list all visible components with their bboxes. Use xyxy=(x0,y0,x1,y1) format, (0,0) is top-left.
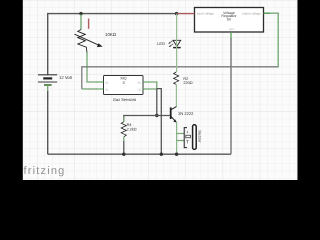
wire: R4 bottom to ground rail xyxy=(123,141,125,154)
svg-text:10KΩ: 10KΩ xyxy=(105,32,117,37)
svg-text:MQ: MQ xyxy=(120,77,126,81)
collector lead xyxy=(171,107,177,110)
wire: sensor right pins U-link (green) xyxy=(149,82,157,89)
voltage regulator U1 box xyxy=(195,8,264,33)
pot wiper pin (red, unconnected) xyxy=(88,19,90,29)
svg-text:input voltage: input voltage xyxy=(197,11,214,15)
resistor R4 2.2k xyxy=(121,117,137,142)
battery V1 12 Volt xyxy=(38,75,73,85)
wire: long middle rail (regulator output to sensor H pin) xyxy=(82,67,278,89)
wire: regulator output green down-link xyxy=(264,13,279,67)
wire: base rail from R4 to transistor xyxy=(124,116,170,122)
regulator output pin (green) xyxy=(264,12,271,14)
svg-text:5V: 5V xyxy=(227,17,232,21)
wire: top rail from battery to regulator input xyxy=(48,14,177,75)
svg-text:12 Volt: 12 Volt xyxy=(59,75,73,80)
pot resistor zigzag xyxy=(78,30,87,53)
svg-text:fritzing: fritzing xyxy=(24,165,66,177)
wire: pot bottom to gas sensor pin A1 (green wire) xyxy=(87,53,97,83)
gas sensor M2 box xyxy=(104,76,144,103)
regulator gnd pin (green) xyxy=(230,32,232,39)
gas sensor pins (green stubs) xyxy=(97,81,104,83)
svg-text:A1: A1 xyxy=(105,81,109,84)
wire: green segment into sensor bottom-left pin xyxy=(82,88,97,90)
wire: regulator gnd down to ground rail xyxy=(230,38,232,154)
wire: LED branch (green) through LED down to R2 xyxy=(176,14,178,72)
pot wiper arrow xyxy=(75,34,101,46)
wire: bottom ground rail xyxy=(48,153,231,155)
emitter lead with arrow xyxy=(171,116,177,122)
svg-text:LED: LED xyxy=(157,41,165,46)
svg-text:R4: R4 xyxy=(127,123,132,127)
svg-text:A2: A2 xyxy=(138,81,142,84)
black pillarbox bars xyxy=(0,0,23,180)
node: junction dot ground rail at x161 xyxy=(160,153,163,156)
svg-text:T: T xyxy=(186,140,189,145)
wire: battery negative down to ground rail xyxy=(47,91,49,154)
svg-text:220Ω: 220Ω xyxy=(183,81,192,85)
LED D1 xyxy=(157,40,181,47)
svg-text:H2: H2 xyxy=(138,88,142,91)
schematic background with grid xyxy=(22,0,298,180)
LED emission arrows xyxy=(169,41,172,43)
transistor Q1 2N2222 NPN xyxy=(171,107,194,123)
wire: buzzer pins to emitter line (green stubs) xyxy=(177,133,184,135)
node: junction dot R4 ground xyxy=(122,153,125,156)
svg-text:Gaz Sensörü: Gaz Sensörü xyxy=(113,97,136,102)
svg-text:Buzzer: Buzzer xyxy=(198,130,203,143)
node: junction dot base rail xyxy=(155,114,158,117)
resistor R2 220 xyxy=(174,72,193,85)
svg-text:output voltage: output voltage xyxy=(242,11,261,15)
battery negative pin (green) xyxy=(47,85,49,92)
wire: R2 to transistor collector (green) xyxy=(175,84,177,106)
svg-text:2N 2222: 2N 2222 xyxy=(178,111,194,116)
svg-text:2.2kΩ: 2.2kΩ xyxy=(127,127,137,131)
pot top pin (green) xyxy=(80,15,82,30)
regulator input pin (red) xyxy=(177,13,194,15)
potentiometer R1 10K rheostat xyxy=(75,15,117,53)
wire: emitter down to ground rail (green) xyxy=(176,122,178,154)
svg-text:gnd: gnd xyxy=(229,28,234,31)
wire: sensor output down to transistor base rail xyxy=(156,89,158,116)
svg-text:H1: H1 xyxy=(105,88,109,91)
svg-text:+: + xyxy=(186,129,189,134)
wire: sensor to ground rail xyxy=(157,89,162,155)
node: junction dot emitter/ground xyxy=(175,153,178,156)
node: junction dot at potentiometer top xyxy=(79,12,82,15)
buzzer BZ1 xyxy=(184,125,202,150)
svg-text:3: 3 xyxy=(122,81,124,85)
node: junction dot at LED branch xyxy=(175,12,178,15)
